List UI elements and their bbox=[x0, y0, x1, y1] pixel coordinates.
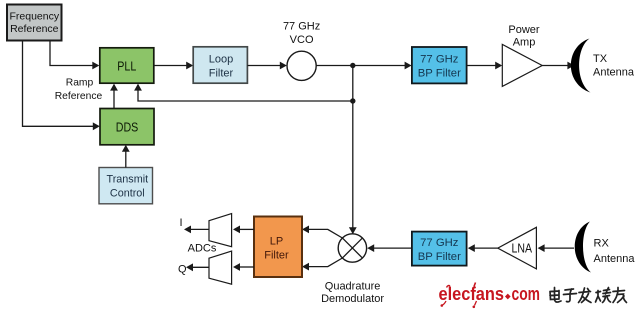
loop filter box bbox=[193, 47, 247, 83]
label RX Antenna bbox=[594, 238, 636, 266]
svg-text:VCO: VCO bbox=[290, 34, 314, 46]
svg-text:elecfans: elecfans bbox=[439, 284, 505, 304]
ADC Q trapezoid bbox=[209, 251, 232, 284]
svg-text:Transmit: Transmit bbox=[107, 173, 149, 185]
wire BP filter RX to mixer bbox=[367, 244, 412, 252]
transmit control box bbox=[99, 168, 153, 204]
wire LO down to mixer bbox=[349, 66, 357, 235]
label power amp bbox=[508, 24, 540, 49]
BP filter TX box bbox=[412, 47, 467, 83]
svg-text:Ramp: Ramp bbox=[66, 78, 94, 89]
svg-text:LNA: LNA bbox=[512, 242, 533, 256]
wire ADC to I bbox=[184, 226, 209, 234]
svg-text:77 GHz: 77 GHz bbox=[420, 54, 459, 66]
svg-text:ADCs: ADCs bbox=[188, 243, 217, 255]
svg-text:Power: Power bbox=[508, 24, 540, 36]
svg-text:com: com bbox=[512, 284, 541, 304]
elecfans.com logo bbox=[439, 283, 541, 309]
svg-text:DDS: DDS bbox=[116, 120, 139, 134]
label 77 GHz VCO bbox=[283, 20, 320, 46]
svg-text:I: I bbox=[180, 217, 183, 229]
svg-text:Control: Control bbox=[110, 188, 145, 200]
LNA triangle bbox=[498, 227, 537, 269]
svg-text:Antenna: Antenna bbox=[593, 66, 635, 78]
BP filter RX box bbox=[412, 232, 467, 266]
ADC I trapezoid bbox=[209, 214, 232, 247]
chinese text you (友) bbox=[613, 288, 627, 303]
wire mixer I output to LP filter bbox=[302, 226, 342, 239]
VCO circle bbox=[287, 51, 316, 80]
wire freq-ref to PLL bbox=[50, 41, 99, 70]
wire mixer Q output to LP filter bbox=[302, 258, 342, 271]
LP filter box bbox=[254, 217, 302, 278]
svg-text:Loop: Loop bbox=[209, 54, 233, 66]
svg-text:Filter: Filter bbox=[209, 68, 234, 80]
svg-text:77 GHz: 77 GHz bbox=[420, 237, 459, 249]
svg-text:Demodulator: Demodulator bbox=[321, 293, 384, 305]
svg-text:PLL: PLL bbox=[117, 59, 136, 73]
wire LP filter to ADC I bbox=[233, 226, 254, 234]
wire VCO to BP filter bbox=[316, 62, 411, 70]
wire loop filter to VCO bbox=[247, 62, 286, 70]
svg-text:77 GHz: 77 GHz bbox=[283, 20, 320, 32]
svg-text:LP: LP bbox=[270, 236, 283, 248]
wire RX antenna to LNA bbox=[538, 244, 574, 252]
chinese text zi (子) bbox=[564, 289, 577, 302]
junction node feedback branch bbox=[350, 98, 355, 103]
PLL box bbox=[100, 48, 154, 83]
wire BP filter to power amp bbox=[467, 62, 503, 70]
wire power amp to TX antenna bbox=[542, 62, 574, 70]
chinese text shao (烧) bbox=[596, 288, 611, 303]
svg-text:Quadrature: Quadrature bbox=[325, 281, 381, 293]
TX antenna bbox=[571, 39, 591, 93]
label TX Antenna bbox=[593, 53, 635, 79]
power amp triangle bbox=[502, 44, 542, 86]
wire LNA to BP filter RX bbox=[468, 244, 498, 252]
RX antenna bbox=[575, 222, 591, 273]
svg-text:Amp: Amp bbox=[513, 37, 536, 49]
label quadrature demodulator bbox=[321, 281, 384, 306]
junction node at VCO output bbox=[350, 63, 355, 68]
svg-text:Antenna: Antenna bbox=[594, 253, 636, 265]
svg-text:Q: Q bbox=[178, 264, 187, 276]
frequency reference box bbox=[7, 5, 62, 41]
svg-text:RX: RX bbox=[594, 238, 610, 250]
svg-text:Filter: Filter bbox=[264, 249, 289, 261]
chinese text fa (发) bbox=[579, 288, 592, 303]
chinese text dian (电) bbox=[550, 288, 561, 303]
label ramp reference bbox=[55, 78, 103, 102]
svg-text:Reference: Reference bbox=[55, 91, 103, 102]
svg-text:BP Filter: BP Filter bbox=[418, 68, 461, 80]
svg-text:Frequency: Frequency bbox=[9, 11, 59, 23]
wire DDS to PLL bbox=[110, 84, 118, 109]
DDS box bbox=[100, 109, 154, 145]
svg-text:Reference: Reference bbox=[10, 23, 59, 35]
svg-text:BP Filter: BP Filter bbox=[418, 251, 461, 263]
svg-text:TX: TX bbox=[593, 53, 608, 65]
wire PLL to loop filter bbox=[154, 62, 193, 70]
wire freq-ref to DDS bbox=[23, 41, 100, 131]
wire LP filter to ADC Q bbox=[233, 263, 254, 271]
mixer quadrature demodulator bbox=[338, 234, 366, 262]
wire ADC to Q bbox=[186, 263, 209, 271]
wire feedback to PLL bbox=[134, 84, 353, 101]
wire transmit control to DDS bbox=[122, 145, 130, 168]
